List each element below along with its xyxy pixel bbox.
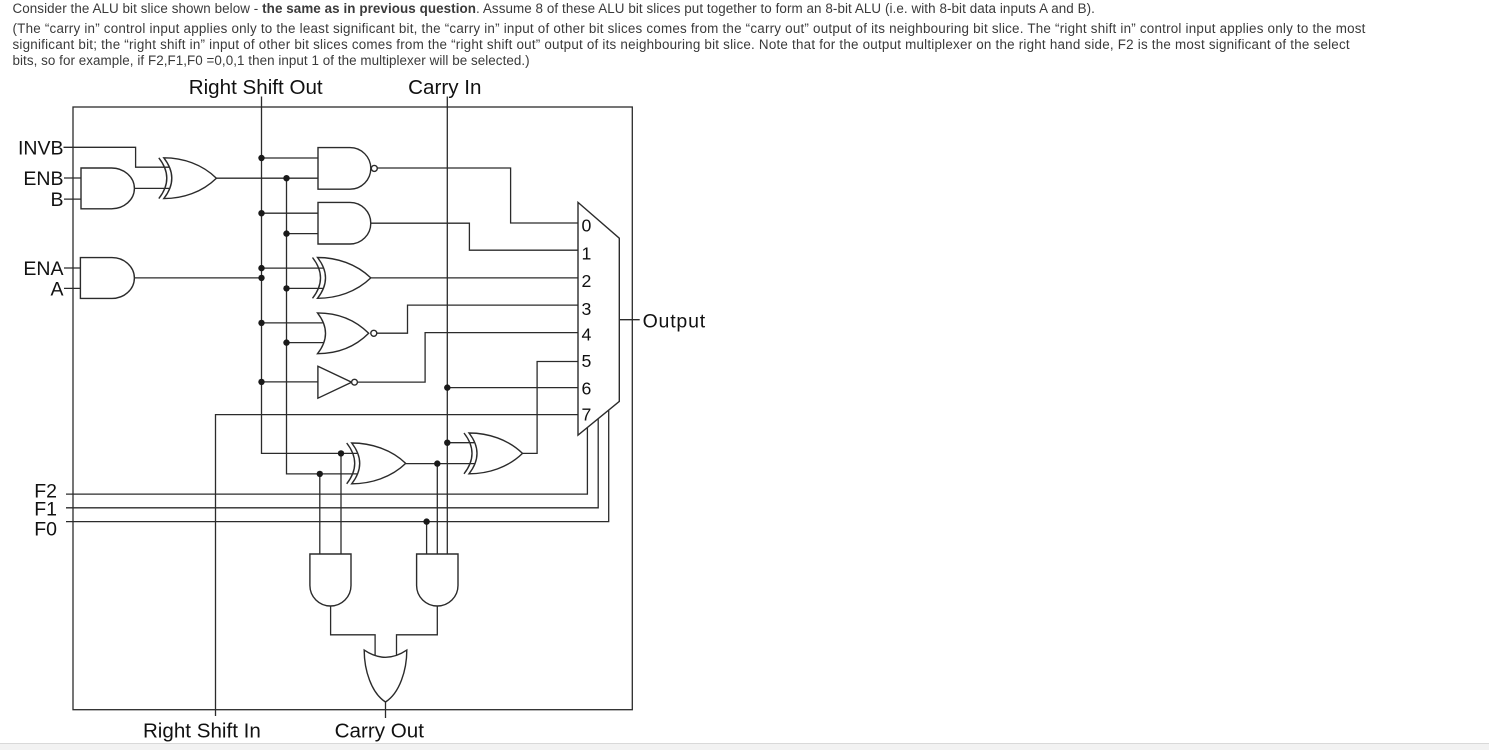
svg-text:F1: F1 bbox=[34, 499, 57, 521]
svg-text:A: A bbox=[50, 279, 63, 301]
svg-text:Carry In: Carry In bbox=[408, 76, 481, 99]
svg-text:7: 7 bbox=[582, 405, 592, 425]
svg-text:0: 0 bbox=[582, 216, 592, 236]
svg-text:ENB: ENB bbox=[23, 168, 63, 190]
svg-text:Output: Output bbox=[643, 310, 706, 332]
svg-text:5: 5 bbox=[582, 351, 592, 371]
svg-text:Right Shift Out: Right Shift Out bbox=[189, 76, 323, 99]
svg-text:F0: F0 bbox=[34, 519, 57, 541]
svg-text:4: 4 bbox=[582, 325, 592, 345]
svg-text:Right Shift In: Right Shift In bbox=[143, 719, 261, 742]
svg-text:2: 2 bbox=[582, 271, 592, 291]
svg-text:INVB: INVB bbox=[18, 137, 64, 159]
svg-text:Carry Out: Carry Out bbox=[335, 719, 425, 742]
svg-text:6: 6 bbox=[582, 379, 592, 399]
svg-text:B: B bbox=[50, 189, 63, 211]
svg-text:1: 1 bbox=[582, 243, 592, 263]
svg-text:ENA: ENA bbox=[23, 258, 63, 280]
svg-text:3: 3 bbox=[582, 299, 592, 319]
